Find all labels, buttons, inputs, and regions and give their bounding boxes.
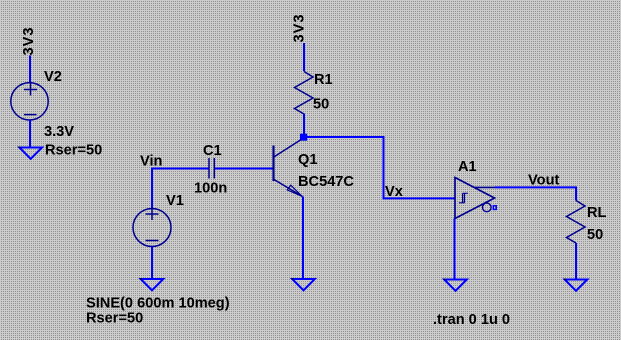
value label SINE(0 600m 10meg): [86, 296, 230, 312]
wire: [303, 114, 305, 135]
label RL: [587, 205, 607, 221]
resistor R1: [295, 72, 314, 115]
value label 3.3V: [44, 124, 74, 140]
wire: [29, 120, 31, 148]
svg-text:SINE(0 600m 10meg): SINE(0 600m 10meg): [86, 296, 230, 312]
wire: [495, 187, 576, 200]
value label BC547C: [298, 174, 354, 190]
resistor RL: [567, 201, 586, 244]
svg-text:R1: R1: [314, 72, 333, 88]
svg-text:.tran 0 1u 0: .tran 0 1u 0: [433, 312, 510, 328]
label C1: [203, 143, 222, 159]
voltage source V2: [11, 83, 48, 120]
directive .tran 0 1u 0: [433, 312, 510, 328]
wire: [307, 137, 455, 198]
svg-text:3V3: 3V3: [21, 27, 37, 56]
svg-text:Rser=50: Rser=50: [86, 311, 143, 327]
value label 50 (R1): [313, 97, 329, 113]
op-amp A1 (schmitt buffer): [455, 178, 495, 219]
junction (collector node): [300, 134, 307, 141]
wire: [302, 197, 304, 281]
ground: [444, 279, 467, 291]
net label Vout: [528, 173, 559, 189]
value label 50 (RL): [587, 227, 603, 243]
label V2: [44, 69, 62, 85]
svg-text:3V3: 3V3: [292, 14, 308, 43]
wire: [151, 168, 153, 209]
label Q1: [298, 152, 317, 168]
label A1: [458, 159, 477, 175]
net label 3V3 (R1 rail): [292, 14, 308, 43]
svg-text:Vin: Vin: [140, 154, 163, 170]
label V1: [166, 193, 184, 209]
svg-text:V2: V2: [44, 69, 62, 85]
svg-text:50: 50: [587, 227, 603, 243]
svg-text:3.3V: 3.3V: [44, 124, 74, 140]
ground: [564, 279, 587, 291]
voltage source V1: [133, 208, 171, 247]
pin (unconnected complementary output): [493, 206, 496, 210]
label R1: [314, 72, 333, 88]
net label Vin: [140, 154, 163, 170]
svg-text:RL: RL: [587, 205, 607, 221]
net label 3V3 (V2 rail): [21, 27, 37, 56]
svg-text:BC547C: BC547C: [298, 174, 354, 190]
svg-text:100n: 100n: [194, 181, 227, 197]
wire: [303, 43, 305, 71]
wire: [29, 56, 31, 84]
ground: [19, 147, 42, 159]
ground: [140, 278, 163, 290]
value label Rser=50 (V1): [86, 311, 143, 327]
value label 100n: [194, 181, 227, 197]
svg-text:50: 50: [313, 97, 329, 113]
wire: [454, 219, 456, 281]
wire: [575, 243, 577, 281]
svg-text:Vout: Vout: [528, 173, 559, 189]
ground: [292, 278, 315, 290]
svg-text:Rser=50: Rser=50: [45, 143, 102, 159]
svg-text:Vx: Vx: [385, 184, 404, 200]
wire: [215, 168, 273, 170]
wire: [151, 168, 209, 170]
svg-text:A1: A1: [458, 159, 477, 175]
svg-text:C1: C1: [203, 143, 222, 159]
wire: [151, 247, 153, 281]
transistor Q1: [274, 140, 303, 197]
capacitor C1: [209, 158, 214, 179]
svg-text:Q1: Q1: [298, 152, 317, 168]
value label Rser=50 (V2): [45, 143, 102, 159]
net label Vx: [385, 184, 404, 200]
svg-text:V1: V1: [166, 193, 184, 209]
